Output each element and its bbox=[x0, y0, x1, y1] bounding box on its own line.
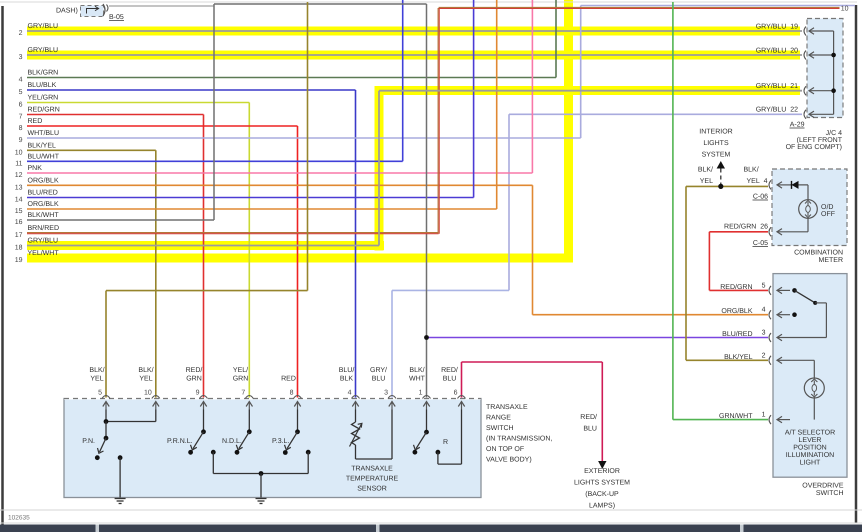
wire to O/D OFF bulb bbox=[807, 185, 809, 200]
wire GRY/BLU to range switch pin3 bbox=[392, 289, 509, 291]
svg-text:4: 4 bbox=[762, 307, 766, 314]
wire BLK/YEL to combination meter pin4 bbox=[686, 185, 768, 187]
J/C 4 pin arrow bbox=[809, 113, 834, 115]
svg-text:4: 4 bbox=[19, 77, 23, 84]
switch common contact R to pin6 bbox=[436, 450, 441, 455]
svg-text:102635: 102635 bbox=[8, 515, 30, 522]
wire row2 GRY/BLU to J/C4 pin19 bbox=[27, 30, 802, 32]
range switch pin 6 bump bbox=[458, 396, 466, 399]
wire row7 RED/GRN to range switch pin9 bbox=[27, 114, 204, 116]
svg-text:INTERIOR: INTERIOR bbox=[699, 129, 732, 136]
svg-text:3: 3 bbox=[762, 330, 766, 337]
page border right bbox=[855, 5, 858, 523]
svg-text:LEVER: LEVER bbox=[799, 437, 822, 444]
svg-text:RED/: RED/ bbox=[441, 366, 458, 374]
range switch pin 5 arrow bbox=[105, 402, 107, 410]
svg-text:SYSTEM: SYSTEM bbox=[702, 152, 731, 159]
svg-text:LAMPS): LAMPS) bbox=[589, 502, 615, 510]
svg-text:(LEFT FRONT: (LEFT FRONT bbox=[797, 136, 843, 144]
svg-text:OFF: OFF bbox=[821, 211, 835, 218]
page border bottom faint bbox=[0, 509, 862, 511]
wire BLK/YEL range switch pin5 riser bbox=[106, 290, 308, 292]
overdrive switch common path to pin3 bbox=[815, 302, 826, 304]
junction connector J/C 4 box bbox=[807, 19, 843, 118]
overdrive switch pin arrow bbox=[777, 359, 790, 361]
ground 1 bbox=[115, 498, 126, 500]
diode bbox=[790, 184, 808, 186]
wire row14 BLU/RED bbox=[27, 197, 474, 199]
svg-text:BLK/WHT: BLK/WHT bbox=[28, 211, 60, 219]
wire highlight band row2 GRY/BLU bbox=[27, 27, 800, 36]
switch N.D.L. bbox=[248, 410, 250, 432]
junction dot J/C4 pin21 bbox=[831, 88, 836, 93]
wire row15 ORG/BLK bbox=[27, 208, 497, 210]
junction dot BLK/WHT-BLU/RED bbox=[424, 335, 429, 340]
svg-text:8: 8 bbox=[19, 125, 23, 132]
svg-text:BRN/RED: BRN/RED bbox=[28, 224, 60, 232]
svg-text:YEL: YEL bbox=[139, 376, 152, 383]
svg-text:11: 11 bbox=[15, 160, 22, 167]
svg-text:5: 5 bbox=[19, 89, 23, 96]
wire row4 BLK/GRN bbox=[27, 77, 556, 79]
svg-text:4: 4 bbox=[348, 390, 352, 397]
wire YEL/WHT row19 horizontal bbox=[27, 254, 573, 263]
svg-text:METER: METER bbox=[819, 257, 844, 264]
svg-text:ON TOP OF: ON TOP OF bbox=[486, 446, 524, 453]
svg-text:10: 10 bbox=[144, 390, 152, 397]
svg-text:OVERDRIVE: OVERDRIVE bbox=[802, 483, 844, 490]
arrow to exterior lights system bbox=[598, 461, 606, 469]
svg-text:9: 9 bbox=[196, 390, 200, 397]
J/C 4 pin arrow bbox=[809, 90, 834, 92]
connector B-05 bracket bbox=[103, 4, 105, 16]
range switch pin 9 bump bbox=[200, 396, 208, 399]
arrow to interior lights system bbox=[717, 161, 725, 169]
common bus to ground bbox=[213, 473, 308, 475]
svg-text:1: 1 bbox=[762, 412, 766, 419]
svg-text:SENSOR: SENSOR bbox=[357, 486, 387, 493]
svg-text:RED/: RED/ bbox=[580, 413, 597, 421]
combination meter box bbox=[772, 169, 847, 246]
svg-text:B-05: B-05 bbox=[109, 14, 124, 21]
range switch pin 10 arrow bbox=[155, 402, 157, 410]
svg-text:LIGHT: LIGHT bbox=[800, 460, 821, 467]
ground wire P.N. bbox=[119, 458, 121, 498]
svg-text:SWITCH: SWITCH bbox=[816, 490, 844, 497]
svg-text:SWITCH: SWITCH bbox=[486, 425, 514, 432]
overdrive switch box bbox=[773, 274, 847, 478]
svg-text:J/C 4: J/C 4 bbox=[826, 129, 842, 137]
svg-text:GRY/BLU: GRY/BLU bbox=[28, 237, 59, 245]
wire row13 ORG/BLK to overdrive switch pin4 bbox=[27, 184, 533, 186]
wire YEL/WHT vertical bbox=[564, 0, 573, 263]
overdrive switch pin arrow bbox=[777, 289, 790, 291]
overdrive switch pin arrow bbox=[777, 419, 790, 421]
svg-text:(IN TRANSMISSION,: (IN TRANSMISSION, bbox=[486, 435, 552, 443]
svg-text:C-06: C-06 bbox=[753, 194, 768, 201]
connector B-05 arrow bbox=[87, 9, 99, 14]
svg-text:15: 15 bbox=[15, 208, 23, 215]
svg-text:14: 14 bbox=[15, 197, 23, 204]
svg-text:RED/GRN: RED/GRN bbox=[720, 283, 752, 291]
footer divider line bbox=[0, 522, 862, 524]
wire row6 YEL/GRN to range switch pin7 bbox=[27, 102, 249, 104]
range switch pin 1 arrow bbox=[426, 402, 428, 410]
svg-text:BLK/YEL: BLK/YEL bbox=[724, 353, 753, 361]
switch common contact P.R.N.L. bbox=[211, 450, 216, 455]
svg-text:A-29: A-29 bbox=[790, 122, 805, 129]
svg-text:2: 2 bbox=[762, 353, 766, 360]
transaxle temperature sensor resistor bbox=[355, 410, 357, 423]
range switch pin 3 bump bbox=[388, 396, 396, 399]
svg-text:BLU/WHT: BLU/WHT bbox=[28, 152, 60, 160]
svg-text:GRY/BLU 22: GRY/BLU 22 bbox=[756, 106, 798, 114]
range switch pin 4 bump bbox=[352, 396, 360, 399]
svg-text:TEMPERATURE: TEMPERATURE bbox=[346, 476, 399, 483]
svg-text:(BACK-UP: (BACK-UP bbox=[585, 490, 619, 498]
svg-text:ORG/BLK: ORG/BLK bbox=[721, 307, 752, 315]
range switch pin 8 bump bbox=[294, 396, 302, 399]
svg-text:GRY/: GRY/ bbox=[370, 366, 387, 374]
svg-text:12: 12 bbox=[15, 172, 23, 179]
svg-text:7: 7 bbox=[241, 390, 245, 397]
combination meter pin4 arrow bbox=[777, 184, 790, 186]
svg-text:TRANSAXLE: TRANSAXLE bbox=[351, 466, 393, 473]
svg-text:WHT/BLU: WHT/BLU bbox=[28, 129, 60, 137]
wire GRY/BLU 22 to J/C4 pin22 bbox=[509, 113, 802, 115]
svg-text:13: 13 bbox=[15, 184, 23, 191]
svg-text:LIGHTS: LIGHTS bbox=[703, 140, 729, 147]
svg-text:VALVE BODY): VALVE BODY) bbox=[486, 456, 532, 464]
wire row8 RED to range switch pin8 bbox=[27, 125, 298, 127]
svg-text:RED: RED bbox=[281, 376, 296, 383]
svg-text:YEL: YEL bbox=[700, 178, 713, 185]
svg-text:BLK: BLK bbox=[340, 376, 354, 383]
svg-text:3: 3 bbox=[19, 54, 23, 61]
svg-text:GRY/BLU 19: GRY/BLU 19 bbox=[756, 23, 798, 31]
range switch pin 7 bump bbox=[245, 396, 253, 399]
svg-text:9: 9 bbox=[19, 137, 23, 144]
svg-text:COMBINATION: COMBINATION bbox=[794, 250, 843, 257]
overdrive switch blade bbox=[795, 290, 816, 303]
svg-text:N.D.L.: N.D.L. bbox=[222, 438, 242, 445]
svg-text:YEL 4: YEL 4 bbox=[747, 178, 768, 185]
J/C 4 pin arrow bbox=[809, 54, 834, 56]
svg-text:RED/: RED/ bbox=[186, 366, 203, 374]
range switch pin 10 bump bbox=[152, 396, 160, 399]
range switch pin 9 arrow bbox=[203, 402, 205, 410]
svg-text:BLK/: BLK/ bbox=[89, 366, 104, 374]
wire row12 PNK bbox=[27, 172, 532, 174]
svg-text:BLK/: BLK/ bbox=[744, 166, 759, 174]
page border top faint bbox=[0, 1, 857, 3]
svg-text:O/D: O/D bbox=[821, 203, 833, 211]
svg-text:BLU/RED: BLU/RED bbox=[722, 330, 752, 338]
svg-text:BLK/: BLK/ bbox=[409, 366, 424, 374]
svg-text:TRANSAXLE: TRANSAXLE bbox=[486, 404, 528, 411]
svg-text:ORG/BLK: ORG/BLK bbox=[28, 176, 59, 184]
svg-text:BLU: BLU bbox=[583, 426, 597, 433]
svg-text:BLU/: BLU/ bbox=[339, 366, 355, 374]
overdrive switch pin arrow bbox=[777, 337, 790, 339]
wire row10 BLK/YEL to range switch pin10 bbox=[27, 149, 156, 151]
svg-text:6: 6 bbox=[19, 102, 23, 109]
svg-text:PNK: PNK bbox=[28, 165, 43, 172]
svg-text:RANGE: RANGE bbox=[486, 415, 511, 422]
range switch pin 6 arrow bbox=[461, 402, 463, 410]
junction dot J/C4 pin20 bbox=[831, 53, 836, 58]
wire from B-05 bbox=[109, 5, 214, 7]
wire row18 GRY/BLU core to J/C4 pin21 bbox=[27, 245, 379, 247]
bottom toolbar bbox=[0, 525, 862, 532]
J/C 4 pin arrow bbox=[809, 30, 834, 32]
svg-text:RED: RED bbox=[28, 118, 43, 125]
wire highlight band row18 GRY/BLU bbox=[27, 241, 384, 250]
svg-text:5: 5 bbox=[762, 283, 766, 290]
wire pin2 to illumination bulb bbox=[790, 359, 814, 361]
svg-text:GRN/WHT: GRN/WHT bbox=[719, 412, 753, 420]
page border left bbox=[1, 6, 4, 525]
switch P.N. bbox=[105, 410, 107, 422]
switch common contact P.3.L. bbox=[306, 450, 311, 455]
svg-text:YEL: YEL bbox=[90, 376, 103, 383]
svg-text:RED/GRN: RED/GRN bbox=[28, 106, 60, 114]
svg-text:3: 3 bbox=[384, 390, 388, 397]
svg-text:10: 10 bbox=[15, 149, 23, 156]
svg-text:BLK/YEL: BLK/YEL bbox=[28, 141, 57, 149]
svg-text:GRY/BLU: GRY/BLU bbox=[28, 46, 59, 54]
svg-text:EXTERIOR: EXTERIOR bbox=[584, 468, 620, 475]
svg-text:19: 19 bbox=[15, 257, 23, 264]
svg-text:BLU/RED: BLU/RED bbox=[28, 189, 58, 197]
svg-text:2: 2 bbox=[19, 30, 23, 37]
svg-text:A/T SELECTOR: A/T SELECTOR bbox=[785, 429, 835, 437]
range switch pin 3 arrow bbox=[391, 402, 393, 410]
svg-text:RED/GRN 26: RED/GRN 26 bbox=[724, 223, 768, 231]
range switch pin 5 bump bbox=[102, 396, 110, 399]
svg-text:8: 8 bbox=[290, 390, 294, 397]
svg-text:BLK/GRN: BLK/GRN bbox=[28, 69, 59, 77]
svg-text:C-05: C-05 bbox=[753, 240, 768, 247]
J/C 4 internal bus bbox=[833, 31, 835, 114]
svg-text:LIGHTS SYSTEM: LIGHTS SYSTEM bbox=[574, 480, 630, 487]
wire highlight band GRY/BLU 21 horizontal bbox=[375, 86, 801, 95]
svg-text:WHT: WHT bbox=[409, 376, 426, 383]
combination meter pin26 arrow bbox=[777, 231, 808, 233]
wire row9 WHT/BLU bbox=[27, 137, 581, 139]
svg-text:GRY/BLU: GRY/BLU bbox=[28, 22, 59, 30]
switch P.R.N.L. bbox=[203, 410, 205, 432]
wire RED/BLU to exterior lights bbox=[461, 362, 463, 399]
wire row5 BLU/BLK to range switch pin4 bbox=[27, 89, 356, 91]
overdrive switch contact pin5 bbox=[792, 288, 797, 293]
range switch pin 7 arrow bbox=[248, 402, 250, 410]
switch P.3.L. bbox=[297, 410, 299, 432]
svg-text:YEL/: YEL/ bbox=[233, 366, 248, 374]
svg-text:GRN: GRN bbox=[186, 376, 202, 383]
svg-text:17: 17 bbox=[15, 232, 23, 239]
svg-text:GRY/BLU 20: GRY/BLU 20 bbox=[756, 47, 798, 55]
svg-text:BLU: BLU bbox=[372, 376, 386, 383]
wire row3 GRY/BLU to J/C4 pin20 bbox=[27, 54, 802, 56]
A/T selector illumination bulb bbox=[804, 378, 824, 398]
transaxle range switch box bbox=[64, 399, 481, 498]
svg-text:BLU: BLU bbox=[443, 376, 457, 383]
svg-text:DASH): DASH) bbox=[56, 7, 78, 15]
range switch pin 1 bump bbox=[423, 396, 431, 399]
svg-text:BLU/BLK: BLU/BLK bbox=[28, 81, 57, 89]
svg-text:P.R.N.L.: P.R.N.L. bbox=[167, 438, 193, 445]
svg-text:10: 10 bbox=[841, 6, 849, 13]
svg-text:16: 16 bbox=[15, 219, 23, 226]
wire row17 BRN/RED to top pin 10 bbox=[27, 232, 439, 234]
wire row16 BLK/WHT to range switch pin1 bbox=[27, 219, 214, 221]
svg-text:GRY/BLU 21: GRY/BLU 21 bbox=[756, 82, 798, 90]
O/D OFF indicator bulb bbox=[799, 200, 818, 219]
svg-text:BLK/: BLK/ bbox=[698, 166, 713, 174]
wire highlight band GRY/BLU 21 vertical bbox=[375, 86, 384, 251]
overdrive switch contact pin4 bbox=[792, 312, 797, 317]
ground 2 bbox=[256, 498, 267, 500]
wire BLU/RED junction to overdrive switch pin3 bbox=[427, 337, 769, 339]
wire bulb to pin1 bbox=[813, 398, 815, 420]
wire highlight band row3 GRY/BLU bbox=[27, 51, 800, 60]
switch R bbox=[426, 410, 428, 433]
svg-text:18: 18 bbox=[15, 245, 23, 252]
svg-text:P.N.: P.N. bbox=[82, 438, 95, 445]
svg-text:POSITION: POSITION bbox=[793, 445, 826, 452]
svg-text:7: 7 bbox=[19, 114, 23, 121]
svg-text:OF ENG COMPT): OF ENG COMPT) bbox=[786, 143, 842, 151]
junction dot BLK/YEL bbox=[718, 184, 723, 189]
svg-text:ILLUMINATION: ILLUMINATION bbox=[786, 452, 835, 459]
svg-text:6: 6 bbox=[454, 390, 458, 397]
wire row11 BLU/WHT bbox=[27, 160, 403, 162]
svg-text:ORG/BLK: ORG/BLK bbox=[28, 200, 59, 208]
wire GRN/WHT to overdrive switch pin1 bbox=[672, 2, 674, 420]
svg-text:YEL/WHT: YEL/WHT bbox=[28, 249, 60, 257]
svg-text:BLK/: BLK/ bbox=[138, 366, 153, 374]
range switch pin 8 arrow bbox=[297, 402, 299, 410]
range switch pin 4 arrow bbox=[355, 402, 357, 410]
svg-text:YEL/GRN: YEL/GRN bbox=[28, 94, 59, 102]
svg-text:1: 1 bbox=[419, 390, 423, 397]
overdrive switch pin arrow bbox=[777, 314, 790, 316]
wire RED/GRN combination meter pin26 bbox=[709, 231, 768, 233]
svg-text:5: 5 bbox=[98, 390, 102, 397]
connector B-05 dashed box bbox=[81, 6, 104, 17]
svg-text:GRN: GRN bbox=[233, 376, 249, 383]
svg-text:P.3.L.: P.3.L. bbox=[272, 438, 289, 445]
svg-text:R: R bbox=[443, 439, 448, 446]
